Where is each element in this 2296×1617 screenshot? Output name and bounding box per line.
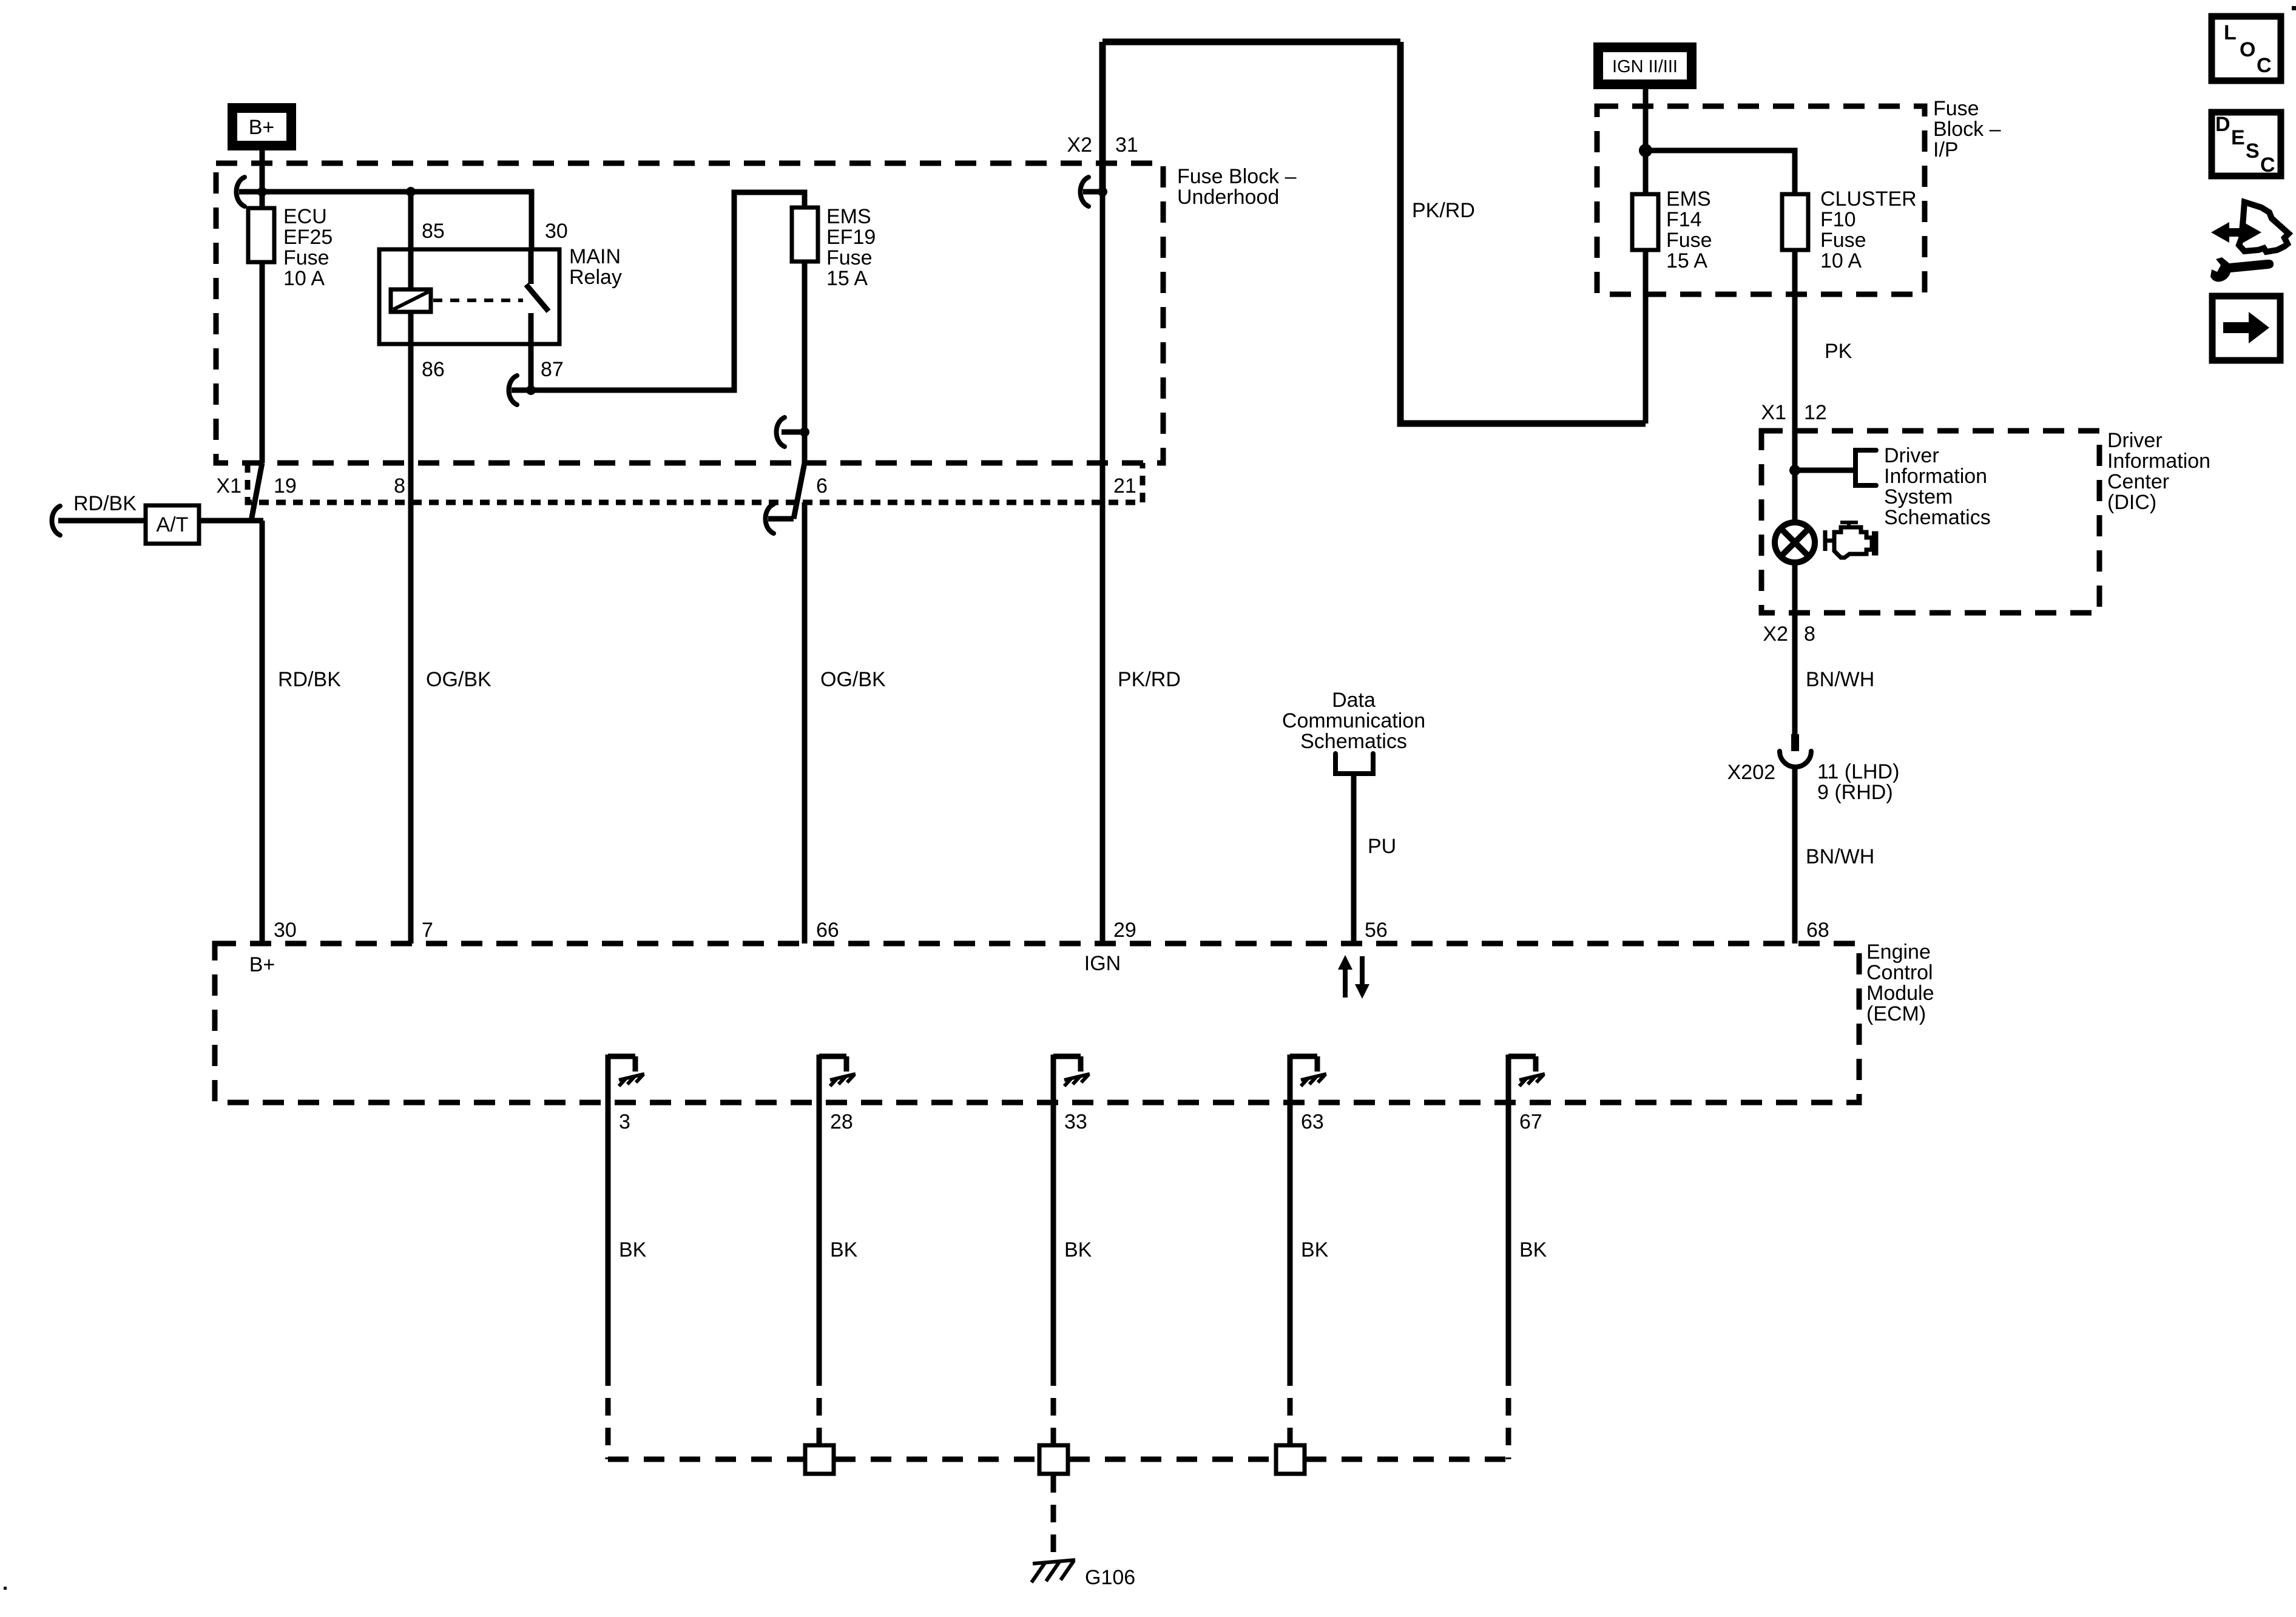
dashed lead to G106 ground	[1051, 1475, 1056, 1559]
wire stub to DIS bracket	[1795, 468, 1855, 473]
wire BN/WH lamp to X202	[1792, 565, 1798, 735]
svg-text:(ECM): (ECM)	[1866, 1002, 1926, 1025]
svg-text:10 A: 10 A	[1820, 249, 1862, 272]
splice square S2	[1039, 1445, 1068, 1474]
svg-text:(DIC): (DIC)	[2107, 491, 2156, 514]
ground pin63	[1290, 1055, 1326, 1102]
svg-text:Module: Module	[1866, 982, 1934, 1005]
svg-text:B+: B+	[249, 953, 275, 976]
svg-text:PK: PK	[1825, 340, 1852, 363]
junction dot at IGN feed	[1639, 144, 1652, 157]
svg-text:C: C	[2257, 54, 2272, 77]
svg-text:Engine: Engine	[1866, 940, 1931, 964]
svg-text:10 A: 10 A	[283, 267, 325, 290]
splice square S3	[1276, 1445, 1305, 1474]
svg-text:30: 30	[274, 919, 297, 942]
svg-text:BK: BK	[830, 1238, 858, 1261]
svg-text:15 A: 15 A	[1666, 249, 1707, 272]
connector A/T box	[146, 505, 199, 544]
svg-text:IGN: IGN	[1084, 952, 1121, 975]
svg-text:PU: PU	[1368, 835, 1396, 858]
junction dot at pin6 connector	[800, 427, 809, 437]
svg-text:X1: X1	[216, 474, 241, 498]
svg-text:68: 68	[1806, 919, 1829, 942]
svg-text:RD/BK: RD/BK	[278, 668, 341, 691]
svg-text:G106: G106	[1085, 1566, 1135, 1589]
svg-text:Driver: Driver	[1884, 444, 1939, 467]
svg-text:EF25: EF25	[283, 226, 333, 249]
svg-text:CLUSTER: CLUSTER	[1820, 187, 1917, 211]
svg-text:8: 8	[394, 474, 405, 498]
svg-text:Fuse: Fuse	[283, 246, 329, 269]
engine control module dashed box	[215, 944, 1859, 1102]
svg-text:86: 86	[422, 358, 445, 381]
svg-text:F10: F10	[1820, 208, 1856, 231]
svg-text:66: 66	[816, 919, 839, 942]
svg-text:Schematics: Schematics	[1300, 730, 1407, 753]
indicator lamp in DIC	[1775, 522, 1815, 562]
page mark bottom left	[4, 1587, 7, 1590]
wire relay 87 to junction	[528, 313, 534, 390]
power flag IGN II/III	[1598, 47, 1692, 84]
svg-text:Fuse: Fuse	[1666, 229, 1712, 252]
wire B+ bus inside fuse block	[239, 192, 532, 249]
bracket to Driver Information System Schematics	[1855, 450, 1876, 485]
svg-text:BK: BK	[1519, 1238, 1547, 1261]
wire PK from CLUSTER F10 fuse to DIC	[1792, 250, 1798, 520]
svg-text:EMS: EMS	[1666, 187, 1711, 211]
svg-text:Center: Center	[2107, 470, 2169, 493]
relay coil-switch dashed link	[433, 299, 523, 302]
svg-text:A/T: A/T	[157, 513, 189, 536]
wire PU data link to ECM pin56	[1351, 774, 1357, 944]
svg-text:X202: X202	[1727, 761, 1775, 784]
svg-text:BK: BK	[619, 1238, 647, 1261]
svg-text:IGN II/III: IGN II/III	[1612, 57, 1678, 76]
wire BK ground pin28	[817, 1102, 822, 1368]
icon DESC box	[2212, 112, 2281, 177]
junction dot at EF25 tap	[257, 187, 267, 197]
wire BK dashed pin3 to splice line	[606, 1368, 611, 1459]
ground pin3	[608, 1055, 644, 1102]
svg-text:BN/WH: BN/WH	[1806, 668, 1874, 691]
svg-text:I/P: I/P	[1933, 138, 1959, 161]
ground pin33	[1053, 1055, 1090, 1102]
fuse CLUSTER F10 10A	[1782, 194, 1808, 250]
svg-text:S: S	[2246, 140, 2260, 163]
svg-text:B+: B+	[249, 116, 275, 139]
svg-text:Driver: Driver	[2107, 429, 2163, 452]
driver information center dashed box	[1761, 431, 2099, 613]
connector X1/X2 dotted line	[248, 463, 1143, 502]
svg-text:11 (LHD): 11 (LHD)	[1817, 760, 1899, 783]
wire relay 87 stub to hook	[512, 388, 531, 393]
connector hook at pin6 junction	[777, 417, 785, 447]
wire BK ground pin63	[1288, 1102, 1293, 1368]
svg-text:8: 8	[1804, 623, 1815, 646]
svg-text:Fuse: Fuse	[1933, 97, 1979, 120]
svg-text:X2: X2	[1067, 133, 1092, 157]
wire BK dashed pin28 to splice	[817, 1368, 822, 1443]
dashed splice bus G106	[608, 1457, 1508, 1462]
svg-text:Fuse Block –: Fuse Block –	[1177, 165, 1297, 188]
svg-text:EF19: EF19	[826, 226, 876, 249]
icon LOC box	[2212, 16, 2281, 81]
svg-text:33: 33	[1064, 1110, 1087, 1133]
engine MIL icon	[1825, 522, 1876, 558]
svg-text:C: C	[2260, 154, 2275, 177]
svg-text:28: 28	[830, 1110, 853, 1133]
svg-text:ECU: ECU	[283, 205, 327, 228]
svg-text:Data: Data	[1332, 689, 1376, 712]
wire OG/BK pin6 to ECM pin66	[802, 502, 808, 944]
svg-text:Block –: Block –	[1933, 118, 2001, 141]
wire relay coil 85	[408, 192, 414, 289]
wire BK dashed pin33 to splice	[1051, 1368, 1056, 1443]
junction dot at X2-31 entry	[1098, 187, 1107, 197]
svg-text:PK/RD: PK/RD	[1118, 668, 1181, 691]
wire pin6 diagonal through connector X1	[794, 463, 805, 519]
svg-text:Information: Information	[1884, 465, 1987, 488]
bracket to Data Communication Schematics	[1335, 754, 1373, 774]
fuse block I/P dashed box	[1597, 106, 1925, 294]
connector hook at B+ bus entry	[237, 177, 245, 206]
wire IGN II/III feed	[1643, 89, 1649, 150]
relay switch 30-87	[526, 249, 549, 344]
svg-text:BN/WH: BN/WH	[1806, 845, 1874, 868]
svg-text:Relay: Relay	[569, 266, 622, 289]
svg-text:67: 67	[1519, 1110, 1542, 1133]
svg-text:EMS: EMS	[826, 205, 871, 228]
wire EMS F14 fuse top	[1643, 150, 1649, 194]
svg-text:7: 7	[422, 919, 433, 942]
wire PK/RD right leg	[1400, 42, 1646, 424]
connector hook at relay 87 junction	[509, 376, 518, 405]
svg-text:Fuse: Fuse	[1820, 229, 1866, 252]
relay MAIN box	[379, 249, 559, 344]
svg-text:63: 63	[1301, 1110, 1324, 1133]
wire RD/BK to A/T	[58, 518, 263, 524]
svg-text:X2: X2	[1763, 623, 1788, 646]
svg-text:87: 87	[541, 358, 564, 381]
svg-text:Schematics: Schematics	[1884, 506, 1991, 529]
splice square S1	[805, 1445, 834, 1474]
svg-text:12: 12	[1804, 401, 1827, 424]
svg-text:BK: BK	[1301, 1238, 1329, 1261]
connector X202 arc	[1780, 751, 1811, 767]
svg-text:X1: X1	[1761, 401, 1786, 424]
wire relay coil 86 to ECM pin7	[408, 312, 414, 944]
icon vehicle with arrow and wrench	[2210, 202, 2289, 282]
connector hook at RD/BK left end	[52, 506, 61, 535]
page mark top right	[2292, 6, 2296, 10]
relay coil	[391, 289, 431, 312]
connector hook at X2-31	[1081, 177, 1089, 206]
svg-text:Information: Information	[2107, 450, 2210, 473]
svg-text:Communication: Communication	[1282, 709, 1425, 732]
svg-text:29: 29	[1113, 919, 1136, 942]
wire stub to lower hook at pin6	[768, 516, 794, 522]
svg-text:Fuse: Fuse	[826, 246, 873, 269]
wire BN/WH X202 to ECM pin68	[1792, 766, 1798, 944]
wire PK/RD top run	[1102, 39, 1400, 46]
wire B+ feed to EF25 fuse	[260, 150, 265, 463]
wire RD/BK pin19 to ECM pin30	[260, 521, 265, 944]
wire stub to hook at pin6	[782, 430, 805, 435]
junction dot at relay 87	[526, 385, 536, 395]
wire pin19 diagonal through connector X1	[251, 463, 262, 521]
ground pin67	[1508, 1055, 1545, 1102]
junction dot in DIC	[1789, 465, 1800, 476]
svg-text:MAIN: MAIN	[569, 245, 621, 268]
svg-text:19: 19	[274, 474, 297, 498]
svg-text:D: D	[2215, 113, 2230, 136]
wire stub to hook at X2-31	[1083, 189, 1102, 195]
junction dot at relay coil tap	[406, 187, 416, 197]
wire 87 junction to EF19 fuse	[531, 192, 805, 390]
wire PK/RD pin21 to ECM pin29	[1100, 192, 1106, 944]
connector hook below pin6	[766, 504, 774, 533]
svg-text:9 (RHD): 9 (RHD)	[1817, 781, 1893, 804]
svg-text:L: L	[2224, 21, 2237, 44]
svg-text:OG/BK: OG/BK	[426, 668, 491, 691]
connector X202 terminal	[1791, 734, 1799, 751]
wire EMS F14 fuse bottom to PK/RD leg	[1643, 250, 1649, 424]
svg-text:3: 3	[619, 1110, 630, 1133]
wire IGN bus to CLUSTER fuse	[1646, 150, 1795, 194]
svg-text:Control: Control	[1866, 961, 1933, 984]
svg-text:RD/BK: RD/BK	[73, 492, 137, 515]
svg-text:OG/BK: OG/BK	[820, 668, 886, 691]
wire BK dashed pin67 to splice line	[1506, 1368, 1511, 1459]
wire EF19 fuse to pin6 junction	[802, 262, 808, 463]
wire BK ground pin33	[1051, 1102, 1056, 1368]
fuse ECU EF25 10A	[248, 208, 274, 262]
svg-text:E: E	[2231, 126, 2245, 149]
svg-text:PK/RD: PK/RD	[1412, 199, 1475, 222]
svg-text:15 A: 15 A	[826, 267, 868, 290]
fuse block underhood dashed box	[216, 163, 1163, 463]
svg-text:BK: BK	[1064, 1238, 1092, 1261]
svg-text:F14: F14	[1666, 208, 1702, 231]
wire BK ground pin3	[606, 1102, 611, 1368]
power flag B+	[232, 108, 291, 146]
ground pin28	[819, 1055, 856, 1102]
ground G106 symbol	[1032, 1560, 1075, 1582]
svg-text:85: 85	[422, 220, 445, 243]
wire BK ground pin67	[1506, 1102, 1511, 1368]
fuse EMS EF19 15A	[792, 208, 818, 262]
icon right arrow box	[2212, 296, 2280, 360]
svg-text:30: 30	[545, 220, 568, 243]
wire X2-31 riser	[1099, 42, 1106, 192]
svg-text:System: System	[1884, 485, 1953, 508]
svg-text:56: 56	[1365, 919, 1388, 942]
svg-text:O: O	[2240, 38, 2255, 61]
fuse EMS F14 15A	[1632, 194, 1658, 250]
wire BK dashed pin63 to splice	[1288, 1368, 1293, 1443]
svg-text:Underhood: Underhood	[1177, 186, 1279, 209]
data link arrows at pin56	[1338, 955, 1369, 999]
svg-text:6: 6	[816, 474, 828, 498]
svg-text:21: 21	[1113, 474, 1136, 498]
svg-text:31: 31	[1115, 133, 1138, 157]
